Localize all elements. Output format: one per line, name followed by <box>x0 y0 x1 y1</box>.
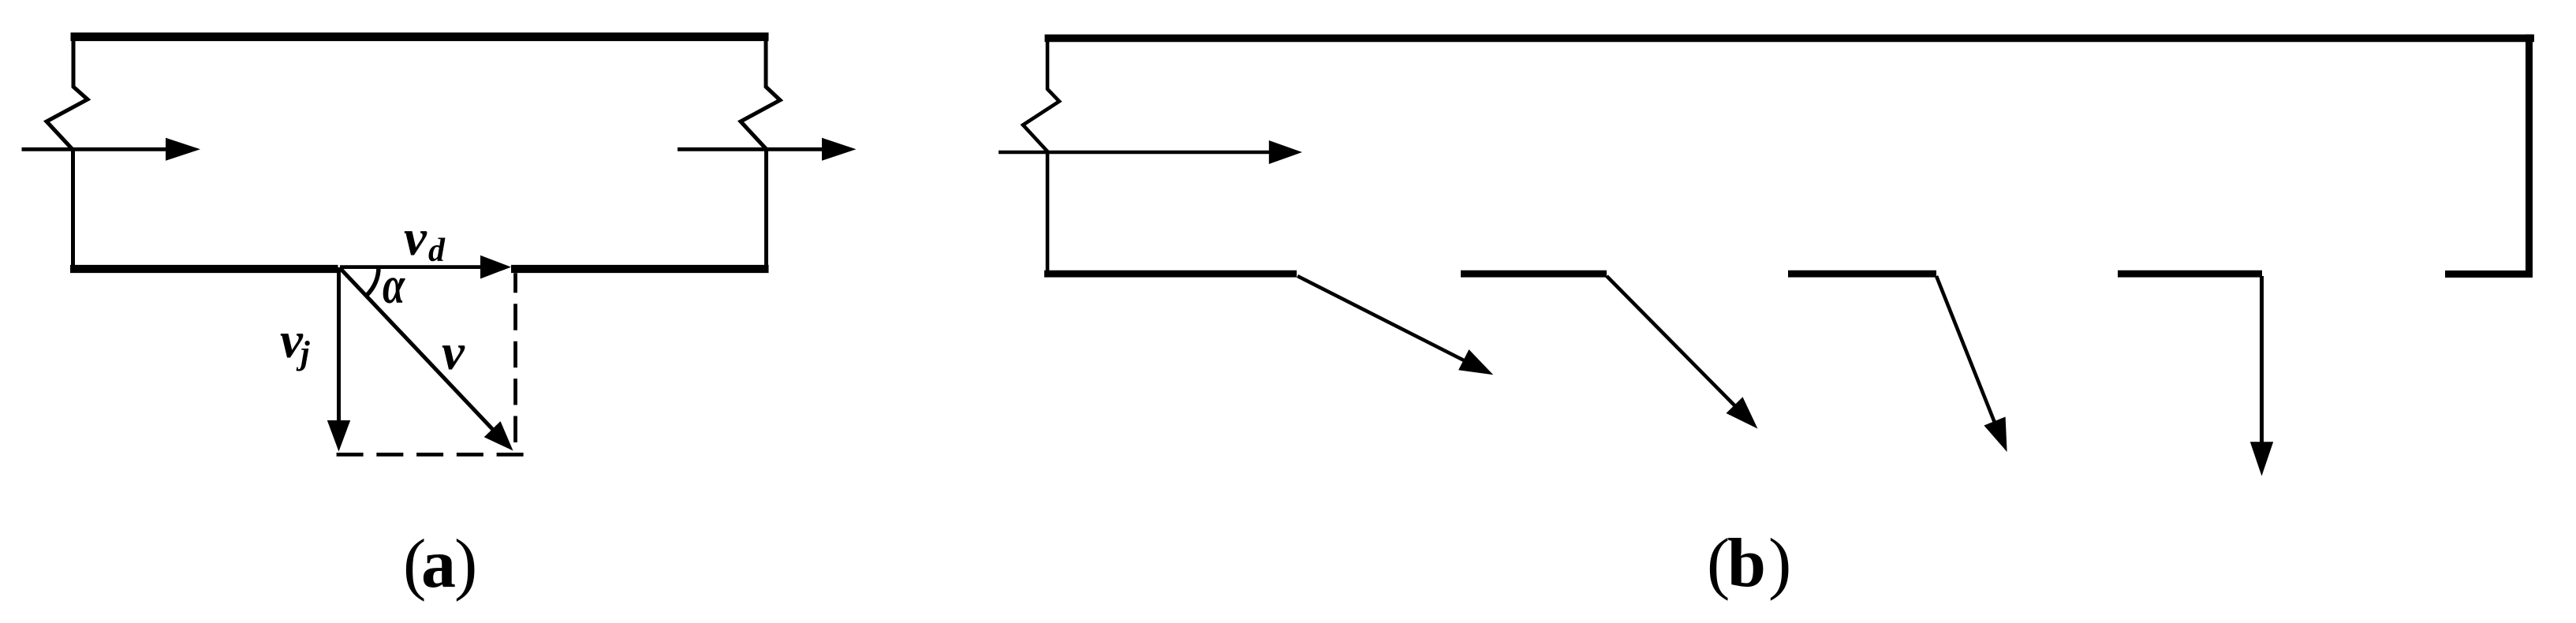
svg-text:v: v <box>442 324 465 381</box>
inflow arrow (a) <box>22 147 168 151</box>
svg-text:): ) <box>1768 525 1791 602</box>
svg-text:v: v <box>404 210 427 267</box>
duct right wall with break symbol (a) <box>741 33 780 274</box>
angle arc alpha <box>367 267 379 296</box>
inflow arrow (b) <box>999 151 1270 154</box>
duct right wall (b) <box>2526 35 2533 278</box>
svg-text:α: α <box>383 256 405 314</box>
jet arrow 4 <box>2260 276 2264 443</box>
outflow arrow (a) <box>678 147 823 151</box>
duct bottom wall right segment (a) <box>511 265 769 273</box>
svg-text:b: b <box>1727 525 1766 602</box>
duct bottom wall segment 3 (b) <box>1788 270 1936 278</box>
duct top wall (a) <box>71 32 769 41</box>
dashed projection line vertical <box>513 273 517 456</box>
duct bottom wall segment 4 (b) <box>2118 270 2262 278</box>
jet arrow 2 <box>1607 276 1737 408</box>
svg-text:a: a <box>421 526 456 602</box>
jet arrow 1 <box>1297 276 1465 361</box>
duct bottom wall left segment (a) <box>70 265 338 273</box>
vector v arrow (resultant) <box>340 268 495 432</box>
dashed projection line horizontal <box>337 453 525 457</box>
svg-text:d: d <box>428 233 446 269</box>
duct left wall with break symbol (b) <box>1023 35 1059 275</box>
duct bottom wall segment 2 (b) <box>1461 270 1607 278</box>
svg-text:): ) <box>454 526 477 602</box>
duct left wall with break symbol (a) <box>47 33 88 274</box>
jet arrow 3 <box>1936 276 1998 431</box>
vector v_j arrow <box>337 267 341 422</box>
duct bottom wall segment 1 (b) <box>1044 270 1297 278</box>
duct bottom wall segment 5 (b) <box>2445 270 2533 278</box>
vector v_d arrow <box>340 265 483 269</box>
duct top wall (b) <box>1045 35 2535 43</box>
svg-text:(: ( <box>1707 525 1730 602</box>
